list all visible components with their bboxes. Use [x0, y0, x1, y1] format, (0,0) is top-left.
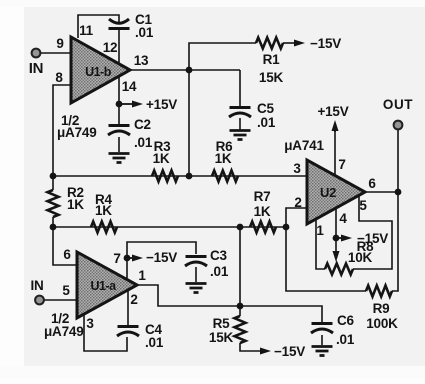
ground for C3 — [186, 284, 207, 293]
junction node bus1 mid — [186, 173, 193, 180]
op-amp U2 — [307, 160, 365, 224]
svg-text:10K: 10K — [348, 250, 373, 265]
wire C1 to pin 12 — [118, 30, 120, 64]
svg-text:C6: C6 — [337, 313, 355, 328]
capacitor C3 .01 — [186, 255, 207, 258]
svg-text:6: 6 — [368, 176, 376, 191]
terminal OUT — [394, 121, 403, 130]
wire R1 to -15V arrow — [283, 42, 295, 44]
arrow +15V U2 pin7 — [334, 131, 336, 132]
ground for C5 — [230, 131, 251, 140]
svg-text:1K: 1K — [67, 197, 84, 212]
svg-text:7: 7 — [338, 157, 345, 172]
junction node output — [395, 189, 402, 196]
wire OUT riser — [397, 130, 399, 192]
svg-text:5: 5 — [62, 283, 70, 298]
capacitor C2 .01 — [109, 124, 130, 127]
capacitor C4 .01 — [118, 325, 139, 328]
terminal IN top — [32, 49, 41, 58]
svg-text:μA749: μA749 — [57, 125, 97, 140]
wire pin 13 junction down to bus1 — [188, 70, 190, 176]
svg-text:C3: C3 — [210, 248, 228, 263]
potentiometer R8 10K — [325, 264, 353, 275]
wire bus2 — [53, 226, 286, 228]
resistor R2 1K — [48, 190, 59, 217]
wire R2 leads — [52, 176, 54, 190]
wire C2 to ground — [118, 137, 120, 152]
op-amp U1-b — [71, 37, 130, 103]
svg-text:R9: R9 — [373, 301, 390, 316]
svg-text:−15V: −15V — [274, 344, 305, 359]
wire pin7 to C3 — [127, 242, 196, 258]
wire U1-b output pin 13 — [130, 69, 240, 71]
svg-text:6: 6 — [63, 247, 71, 262]
svg-text:12: 12 — [103, 40, 118, 55]
wire pin 14 down — [118, 77, 120, 124]
ground for C2 — [109, 154, 130, 163]
svg-text:9: 9 — [56, 36, 63, 51]
svg-text:+15V: +15V — [317, 104, 348, 119]
wire U1-a pin 3 to C4 bottom — [84, 314, 127, 351]
svg-text:μA741: μA741 — [284, 138, 324, 153]
arrow -15V R5 — [260, 348, 271, 355]
junction node bus1 left — [50, 173, 57, 180]
svg-text:IN: IN — [29, 60, 44, 77]
wire down to pin 6 — [53, 227, 76, 265]
svg-text:U2: U2 — [320, 185, 336, 200]
wire U2 pin 4 — [335, 208, 337, 238]
svg-text:.01: .01 — [257, 115, 276, 130]
svg-text:7: 7 — [113, 251, 120, 266]
svg-text:U1-a: U1-a — [90, 279, 117, 293]
svg-text:C5: C5 — [257, 101, 275, 116]
svg-text:1K: 1K — [215, 151, 232, 166]
op-amp U1-a — [77, 252, 137, 318]
junction node bus2 left — [50, 224, 57, 231]
svg-text:U1-b: U1-b — [85, 65, 112, 79]
wire up to R1 — [189, 43, 256, 70]
resistor R6 1K — [212, 171, 238, 182]
svg-text:.01: .01 — [135, 25, 154, 40]
wire down to C5 — [239, 70, 241, 106]
junction node U1-a out — [237, 303, 244, 310]
resistor R1 15K — [256, 38, 283, 49]
svg-text:1K: 1K — [95, 203, 112, 218]
svg-text:5: 5 — [359, 198, 367, 213]
svg-text:3: 3 — [86, 316, 94, 331]
svg-text:−15V: −15V — [310, 36, 341, 51]
svg-text:1K: 1K — [153, 151, 170, 166]
ground for C6 — [312, 347, 333, 356]
svg-text:11: 11 — [79, 23, 94, 38]
svg-text:C2: C2 — [134, 117, 151, 132]
capacitor C1 .01 — [109, 19, 129, 23]
svg-text:.01: .01 — [145, 335, 164, 350]
svg-text:8: 8 — [55, 70, 63, 85]
arrow +15V pin14 — [119, 103, 133, 105]
svg-text:14: 14 — [122, 79, 137, 94]
arrow -15V U1-a pin7 — [127, 257, 132, 259]
wire C5 to ground — [239, 118, 241, 130]
junction node U2 pin4 — [333, 235, 340, 242]
resistor R5 15K — [235, 316, 246, 343]
wire U2 output pin 6 — [364, 191, 398, 193]
svg-text:4: 4 — [339, 211, 347, 226]
svg-text:2: 2 — [294, 195, 301, 210]
svg-text:R1: R1 — [263, 52, 281, 67]
wire R9 right to output node — [392, 192, 398, 291]
terminal IN bottom — [35, 296, 44, 305]
svg-text:1: 1 — [316, 223, 324, 238]
wire U2 pin 5 to R8 right — [353, 195, 392, 269]
svg-text:100K: 100K — [366, 316, 398, 331]
svg-text:.01: .01 — [210, 264, 229, 279]
wire U1-a output — [137, 285, 240, 306]
wire U1-a pin 7 — [126, 258, 128, 278]
resistor R4 1K — [91, 222, 117, 233]
junction node U1-a pin7 — [124, 255, 131, 262]
resistor R3 1K — [152, 171, 178, 182]
wire pin 8 down to bus1 — [53, 85, 71, 176]
svg-text:R7: R7 — [254, 189, 271, 204]
wire U2 pin 1 to R8 left — [316, 219, 325, 269]
svg-text:.01: .01 — [336, 332, 355, 347]
capacitor C5 .01 — [230, 106, 251, 109]
svg-text:13: 13 — [134, 53, 149, 68]
wire R5 leads — [239, 306, 241, 316]
svg-text:R5: R5 — [213, 316, 231, 331]
wire R8 wiper — [335, 238, 337, 253]
capacitor C6 .01 — [312, 322, 333, 325]
svg-text:+15V: +15V — [146, 97, 177, 112]
wire U2 pin 7 to +15V — [334, 131, 336, 176]
wire IN2 to pin 5 — [44, 299, 76, 301]
wire IN1 to pin 9 — [41, 52, 71, 54]
wire U2 pin2 riser — [286, 208, 307, 227]
wire C3 to ground — [195, 267, 197, 282]
svg-text:−15V: −15V — [146, 250, 177, 265]
wire U1-a pin 2 to C4 top — [127, 290, 129, 325]
arrow -15V U2 pin4 — [336, 237, 342, 239]
svg-text:1K: 1K — [254, 204, 271, 219]
svg-text:15K: 15K — [259, 70, 284, 85]
wire bus1 — [53, 175, 307, 177]
svg-text:3: 3 — [293, 161, 301, 176]
arrow -15V R1 — [294, 40, 305, 47]
wire pin 11 to C1 top — [78, 15, 119, 38]
junction node bus2 right — [283, 224, 290, 231]
svg-text:15K: 15K — [209, 330, 234, 345]
junction node bus2 mid — [237, 224, 244, 231]
svg-text:μA749: μA749 — [44, 324, 84, 339]
svg-text:OUT: OUT — [383, 97, 413, 112]
arrow R8 wiper — [333, 251, 340, 262]
junction node pin13 — [186, 67, 193, 74]
resistor R9 100K — [366, 286, 392, 297]
wire feedback down to R9 — [286, 227, 366, 291]
wire to C6 — [240, 306, 322, 322]
svg-text:2: 2 — [130, 292, 137, 307]
svg-text:IN: IN — [30, 278, 43, 293]
resistor R7 1K — [250, 222, 276, 233]
wire C6 to ground — [321, 335, 323, 345]
wire output up to bus2 — [239, 227, 241, 306]
svg-text:1: 1 — [138, 268, 146, 283]
svg-text:.01: .01 — [134, 135, 153, 150]
junction node pin14 +15V — [116, 101, 123, 108]
